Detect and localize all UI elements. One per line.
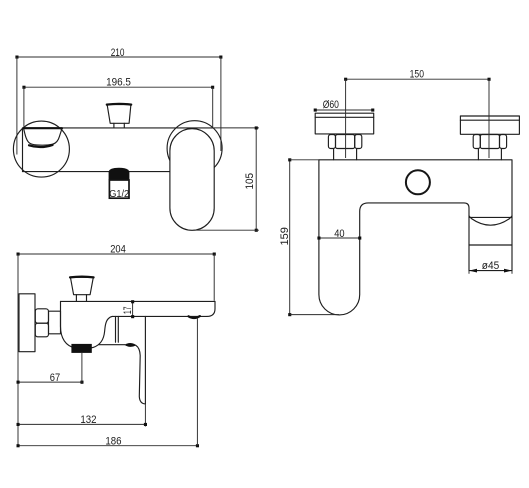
svg-text:105: 105 xyxy=(244,173,256,190)
svg-text:150: 150 xyxy=(410,68,425,80)
right escutcheon circle xyxy=(167,121,222,176)
diverter knob (front view) xyxy=(107,104,131,123)
dimension 150 line xyxy=(346,78,489,80)
dimension 17 line xyxy=(132,302,134,317)
svg-text:132: 132 xyxy=(80,414,96,426)
svg-text:196.5: 196.5 xyxy=(106,77,131,89)
dimension 196.5 line xyxy=(24,86,213,88)
dimension 105 line xyxy=(255,128,257,230)
spout bowl top thick edge xyxy=(24,127,62,129)
132 extension xyxy=(144,404,146,427)
svg-text:40: 40 xyxy=(334,228,345,240)
svg-text:210: 210 xyxy=(111,47,125,59)
spout bowl xyxy=(24,128,62,145)
dimension 204 line xyxy=(18,253,214,255)
wall flange (side view) xyxy=(19,294,35,352)
diverter knob (side view) xyxy=(70,277,93,295)
svg-text:159: 159 xyxy=(279,227,291,245)
diverter knob side stem xyxy=(76,295,86,302)
right inlet pipe (rear view) xyxy=(478,149,501,160)
spout bar right end xyxy=(207,301,215,316)
spout cylinder bottom / dim 45 line xyxy=(469,270,512,272)
dimension 45 extension stubs xyxy=(469,271,512,274)
left escutcheon (rear view) xyxy=(315,113,374,134)
faucet body left edge xyxy=(22,128,24,172)
dimension 186 extension xyxy=(196,318,198,446)
shower outlet G1/2 box xyxy=(109,180,129,198)
spout cylinder chord line xyxy=(469,216,512,218)
dimension 159 extensions xyxy=(290,160,339,315)
left hex nut (rear view) xyxy=(328,135,335,149)
dimension 186 line xyxy=(18,445,197,447)
shower outlet black cap xyxy=(109,168,130,180)
diverter knob stem xyxy=(114,123,124,128)
svg-text:Ø60: Ø60 xyxy=(323,99,340,111)
dimension 45 arrows xyxy=(469,269,512,273)
dimension 67 line xyxy=(18,381,82,383)
dimension 204 extension lines xyxy=(18,254,214,446)
spout bowl bottom dark lip xyxy=(29,145,53,147)
lever front curve and face xyxy=(136,345,146,404)
faucet body (side view) xyxy=(61,301,113,348)
svg-text:204: 204 xyxy=(110,244,126,256)
shower outlet (side view, black) xyxy=(71,344,91,353)
inlet pipe (side view) xyxy=(49,311,61,334)
dimension 105 bottom extension xyxy=(194,229,259,231)
svg-text:G1/2: G1/2 xyxy=(109,189,129,200)
lever top line xyxy=(99,344,125,346)
spout mouth concave arc xyxy=(469,216,512,225)
dimension 67 extension xyxy=(81,353,83,384)
right escutcheon (rear view) xyxy=(460,116,519,134)
svg-text:67: 67 xyxy=(50,372,61,384)
hex nut (side view) xyxy=(35,309,48,323)
faucet body (rear view) outline xyxy=(319,160,512,315)
lever back edge xyxy=(144,316,146,404)
spout cylinder seam line xyxy=(469,244,512,246)
left escutcheon circle xyxy=(13,121,69,177)
svg-text:186: 186 xyxy=(105,436,121,448)
svg-text:ø45: ø45 xyxy=(482,260,500,272)
handle (front view stadium) xyxy=(170,129,214,231)
diverter knob side thick top xyxy=(70,275,94,278)
left escutcheon step line xyxy=(315,116,374,118)
dimension 40 line xyxy=(319,237,360,239)
right escutcheon step line xyxy=(460,119,519,121)
faucet body bottom edge xyxy=(23,171,170,173)
left inlet pipe (rear view) xyxy=(334,149,357,160)
dimension 150 centerlines xyxy=(346,79,489,158)
svg-text:17: 17 xyxy=(122,307,134,315)
right hex nut (rear view) xyxy=(473,135,480,149)
dimension 196.5 extension lines xyxy=(24,87,213,127)
dimension 132 line xyxy=(18,423,145,425)
diverter button circle (rear view) xyxy=(406,170,430,194)
spout bar underside xyxy=(112,315,207,317)
spout bar (side view) top edge xyxy=(61,300,216,302)
spout tip dark lip xyxy=(189,316,200,318)
diverter knob thick top xyxy=(107,103,131,106)
dimension 210 line xyxy=(17,56,221,58)
dimension 159 line xyxy=(289,160,291,315)
dimension 210 extension lines xyxy=(17,57,221,155)
faucet body (front view) top edge + 105 extension xyxy=(23,127,213,129)
lever dark tip crescent xyxy=(124,343,136,347)
cartridge joint lines xyxy=(116,316,119,342)
dimension 60 line xyxy=(315,109,374,111)
